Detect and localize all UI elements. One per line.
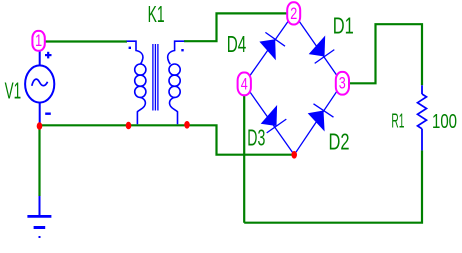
node 1: [32, 31, 44, 51]
svg-text:2: 2: [290, 4, 297, 23]
diode D2 (bridge bottom -> node3): [308, 104, 334, 132]
node 4: [238, 73, 251, 96]
junction: V1 bottom: [37, 122, 43, 130]
voltage source V1: [25, 51, 54, 123]
wire: node 4 down to bottom rail: [243, 95, 245, 223]
primary phase dot: [129, 47, 131, 49]
junction: bridge bottom: [291, 151, 297, 159]
diode D3 (node4 -> bridge bottom): [261, 105, 287, 133]
svg-text:3: 3: [339, 74, 346, 93]
junction: secondary bottom on rail: [184, 121, 190, 129]
wire: bottom rail to R1 bottom: [244, 150, 422, 222]
wire: node 1 to transformer primary top: [45, 40, 128, 42]
diode D1 (node2 -> node3): [309, 36, 335, 64]
wire: transformer secondary top to node 2: [184, 13, 287, 41]
node 3: [336, 72, 349, 95]
svg-text:1: 1: [35, 31, 42, 50]
svg-text:D3: D3: [247, 124, 265, 150]
svg-text:100: 100: [432, 111, 457, 133]
bridge diagonal wires: [244, 13, 342, 154]
resistor R1: [418, 85, 427, 150]
svg-text:V1: V1: [5, 78, 22, 104]
diode D4 (node4 -> node2): [259, 32, 285, 60]
svg-text:D2: D2: [329, 129, 350, 155]
ground: [27, 196, 51, 238]
transformer core: [153, 44, 158, 111]
wire: V1 bottom junction down to ground: [38, 126, 40, 196]
transformer K1 secondary winding: [168, 41, 185, 124]
wire: bottom rail from V1 junction past transformer, jog down to bridge bottom: [40, 125, 294, 154]
svg-text:4: 4: [241, 74, 248, 93]
svg-text:D4: D4: [227, 31, 247, 57]
node 2: [287, 2, 300, 24]
svg-text:K1: K1: [148, 1, 165, 27]
secondary phase dot: [181, 49, 183, 51]
svg-text:R1: R1: [391, 110, 404, 132]
junction: primary bottom on rail: [126, 122, 132, 130]
transformer K1 primary winding: [127, 41, 146, 124]
wire: node 3 to R1 top: [349, 24, 422, 85]
svg-text:D1: D1: [333, 12, 354, 38]
